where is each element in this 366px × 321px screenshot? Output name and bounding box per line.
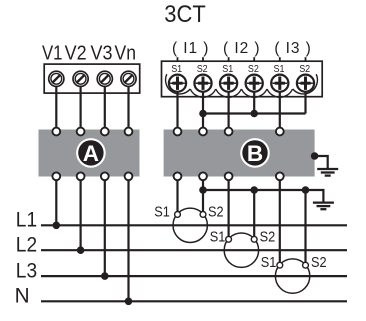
meter block B [164,130,315,177]
terminal pin A bottom 2 [77,172,85,180]
ground symbol lower [313,203,334,210]
wire B out 1 to CT1 S1 [176,180,178,212]
stub pin I1 S1 [177,57,179,61]
terminal pin B bottom 1 [174,172,182,180]
screw S1 (I2) [220,75,237,92]
svg-text:( I2 ): ( I2 ) [223,40,259,57]
junction dot L3 [101,272,109,280]
stub pin I3 S1 [279,57,281,61]
common bus S2 (bottom) [203,189,306,191]
junction dot bus top at S2 I2 [250,110,258,118]
terminal pin A bottom 4 [125,172,133,180]
screw terminal V3 [97,71,112,86]
svg-text:3CT: 3CT [164,1,206,28]
stub pin I2 S2 [253,57,255,61]
svg-text:S1: S1 [222,64,233,75]
screw terminal V2 [73,71,88,86]
current transformer CT1 [173,208,207,242]
terminal pin A top 3 [101,128,109,136]
screw well arc 4 [241,89,267,97]
svg-text:A: A [83,141,99,166]
wire I1 S1 to meter B [176,92,178,128]
wire I3 S1 to meter B [279,92,281,128]
wire bus to CT3 S2 [304,190,306,263]
stub pin I3 S2 [305,57,307,61]
wire V3 to meter A [104,86,106,127]
junction dot bus top at S2 I1 [199,110,207,118]
terminal block TB1 (voltage inputs) [44,64,140,93]
svg-text:N: N [15,285,30,308]
meter block A [39,130,140,177]
svg-text:S2: S2 [208,204,224,221]
junction dot L2 [77,246,85,254]
terminal pin A bottom 3 [101,172,109,180]
svg-text:S1: S1 [261,254,277,271]
terminal pin B top 4 [276,128,284,136]
screw well arc 1 [166,74,191,94]
wire I3 S2 to common bus [304,92,306,114]
svg-text:V1: V1 [42,42,63,64]
line N [41,300,347,302]
wire A out 1 to L1 [55,180,57,225]
wire A out 3 to L3 [104,180,106,276]
screw S2 (I1) [194,75,211,92]
ground wire from B right edge [311,152,328,168]
ground wire from bottom bus [306,190,324,202]
junction dot N [125,298,133,306]
svg-text:S2: S2 [299,64,310,75]
terminal pin B top 3 [225,128,233,136]
svg-text:( I1 ): ( I1 ) [172,40,209,57]
terminal pin A top 2 [77,128,85,136]
terminal block TB2 (current inputs) [162,61,323,96]
screw terminal V1 [49,71,64,86]
svg-text:S2: S2 [260,228,276,245]
svg-text:L2: L2 [16,234,37,257]
svg-text:Vn: Vn [115,42,137,64]
svg-text:S2: S2 [248,64,259,75]
svg-text:S1: S1 [171,64,182,75]
wire Vn to meter A [127,86,129,127]
wire B out 3 to CT2 S1 [228,180,230,237]
terminal pin B bottom 3 [225,172,233,180]
junction dot bus bottom 1 [199,186,207,194]
ground symbol upper [317,169,338,176]
line L3 [41,275,347,277]
badge B [240,138,270,168]
wire I2 S1 to meter B [228,92,230,128]
terminal pin B top 2 [199,128,207,136]
svg-text:L1: L1 [16,209,37,232]
terminal pin B bottom 2 [199,172,207,180]
line L2 [41,249,347,251]
svg-text:L3: L3 [16,260,37,283]
badge A [76,138,106,168]
svg-text:B: B [247,141,263,166]
terminal pin A top 4 [125,128,133,136]
junction dot bus bottom 3 [302,186,310,194]
screw well arc 3 [216,89,242,97]
svg-text:S2: S2 [311,254,327,271]
wire A out 4 to N [127,180,129,301]
wire I2 S2 to common bus [253,92,255,114]
current transformer CT3 [275,259,309,293]
line L1 [41,224,347,226]
svg-text:( I3 ): ( I3 ) [274,40,311,57]
wire V2 to meter A [79,86,81,127]
screw terminal Vn [121,71,136,86]
terminal pin B bottom 4 [276,172,284,180]
terminal pin A bottom 1 [52,172,60,180]
terminal pin B top 1 [174,128,182,136]
screw S2 (I3) [297,75,314,92]
svg-text:S1: S1 [210,228,226,245]
common bus S2 (top) [203,112,306,114]
screw S1 (I1) [169,75,186,92]
svg-text:S1: S1 [154,204,170,221]
terminal pin A top 1 [52,128,60,136]
screw S2 (I2) [246,75,263,92]
wire bus to CT2 S2 [253,190,255,237]
junction dot L1 [53,222,61,230]
svg-text:V2: V2 [65,42,87,64]
screw well arc 2 [190,89,216,97]
wire V1 to meter A [55,86,57,127]
wire B out 4 to CT3 S1 [279,180,281,262]
current transformer CT2 [224,233,258,267]
svg-text:V3: V3 [91,42,113,64]
wire I1 S2 to meter B [202,92,204,128]
svg-text:S2: S2 [197,64,208,75]
stub pin I1 S2 [202,57,204,61]
wire A out 2 to L2 [79,180,81,250]
stub pin I2 S1 [228,57,230,61]
screw S1 (I3) [271,75,288,92]
wire B out 2 (common) to CT1 S2 [202,180,204,212]
screw well arc 5 [267,89,293,97]
junction dot bus bottom 2 [250,186,258,194]
svg-text:S1: S1 [274,64,285,75]
screw well arc 6 [293,74,318,94]
